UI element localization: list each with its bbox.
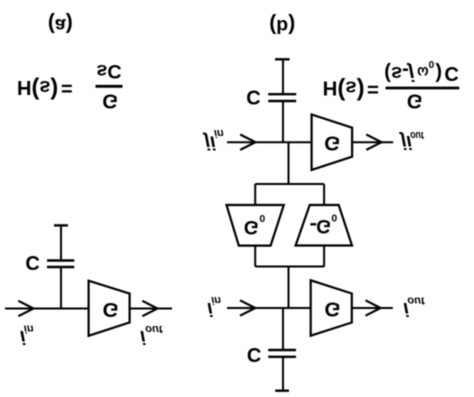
arrow input (b2) [240,135,255,150]
wire stem gyrator to node2 (b) [288,142,290,184]
label ji_out (b2) [398,129,425,152]
svg-text:G: G [316,215,331,236]
ground terminal (b2) [275,58,290,60]
svg-text:C: C [246,86,260,108]
svg-text:G: G [102,90,118,112]
wire capacitor stem (a) [60,267,62,309]
wire capacitor stem (b2) [282,101,284,142]
wire left stem lower (b) [254,184,256,205]
svg-text:out: out [145,323,163,335]
svg-text:(s-jω0)C: (s-jω0)C [384,58,459,84]
wire ground stem (a) [60,225,62,260]
svg-text:=: = [367,78,379,100]
arrow output (a) [142,301,157,316]
svg-text:=: = [61,77,73,99]
wire rail stem (b1) [282,357,284,391]
svg-text:(a): (a) [48,13,73,37]
wire input (a) [5,308,89,310]
transconductor G (b1) [311,280,352,335]
ground terminal (a) [54,224,68,226]
svg-text:0: 0 [259,212,265,224]
svg-text:G: G [103,298,119,321]
wire output (b2) [352,141,393,143]
label i_out (a) [140,323,164,347]
arrow output (b2) [366,135,381,150]
svg-text:out: out [410,129,425,141]
transconductor G0 (b) [227,205,284,246]
wire stem node1 to gyrator (b) [288,267,290,309]
svg-text:C: C [247,343,261,365]
arrow input (b1) [240,300,255,315]
label -G0 [310,212,337,237]
rail terminal (b1) [275,390,289,392]
svg-text:G: G [244,216,259,237]
wire output (b1) [352,307,393,309]
svg-text:in: in [24,322,34,334]
svg-text:(b): (b) [269,13,295,37]
wire upper connector (b) [255,266,324,268]
svg-text:G: G [407,90,423,112]
formula H(s)=G/sC [17,60,123,112]
transconductor -G0 (b) [296,205,352,246]
svg-text:G: G [325,298,341,321]
label G0 [244,212,266,237]
svg-text:out: out [407,294,425,306]
svg-text:C: C [25,251,39,273]
wire output (a) [130,308,172,310]
arrow output (b1) [366,300,381,315]
transconductor G (a) [89,281,130,336]
wire left stem upper (b) [254,246,256,267]
wire input (b2) [227,141,312,143]
wire ground stem (b2) [282,59,284,94]
label i_in (a) [20,322,34,347]
svg-text:G: G [324,131,340,154]
label i_out (b1) [403,294,425,319]
formula H(s)=G/(s-jw0)C [323,58,460,112]
wire lower connector (b) [255,183,324,185]
svg-text:in: in [211,294,221,306]
wire capacitor stem (b1) [282,308,284,350]
wire input (b1) [227,307,311,309]
svg-text:H(s): H(s) [17,76,58,104]
capacitor C (a) [47,261,74,268]
wire right stem upper (b) [323,246,325,267]
arrow input (a) [18,301,33,316]
svg-text:H(s): H(s) [323,77,365,105]
transconductor G (b2) [312,115,353,170]
svg-text:sC: sC [96,60,121,82]
capacitor C (b2) [268,94,296,101]
capacitor C (b1) [268,350,296,357]
svg-text:0: 0 [331,212,337,224]
label ji_in (b2) [202,127,224,152]
wire right stem lower (b) [323,184,325,205]
svg-text:in: in [214,127,224,139]
label i_in (b1) [207,294,221,319]
